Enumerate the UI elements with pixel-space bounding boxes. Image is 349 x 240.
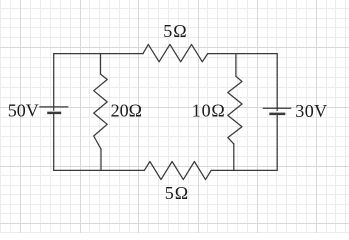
battery V2 long plate (+) [263, 107, 292, 109]
resistor R4 5ohm (bottom) [144, 162, 211, 180]
wire branch: top node to resistor R2 [100, 54, 102, 75]
wire branch: R2 to bottom wire [100, 149, 102, 170]
svg-text:20Ω: 20Ω [111, 100, 142, 120]
wire top-right: R1 to node B [208, 53, 278, 55]
svg-text:10Ω: 10Ω [192, 100, 226, 120]
wire bottom-right: R4 to node C [211, 169, 277, 171]
svg-text:5Ω: 5Ω [165, 183, 189, 203]
svg-text:50V: 50V [8, 100, 39, 120]
wire right side upper: node B down to battery V2 [276, 54, 278, 111]
wire branch: R3 to bottom wire [233, 144, 235, 171]
wire top-left: node A to resistor R1 [54, 53, 143, 55]
resistor R3 10ohm (middle-right vertical) [228, 76, 242, 144]
battery V2 short plate (-) [269, 113, 285, 116]
svg-text:5Ω: 5Ω [163, 21, 187, 41]
wire branch: top node to resistor R3 [235, 54, 237, 77]
svg-text:30V: 30V [295, 101, 327, 121]
resistor R2 20ohm (middle-left vertical) [94, 74, 108, 149]
wire right side lower: battery V2 to node C [276, 114, 278, 170]
battery V1 long plate (+) [39, 106, 68, 108]
wire left side upper: node A down to battery V1 [53, 54, 55, 111]
wire left side lower: battery V1 to node D [53, 113, 55, 170]
resistor R1 5ohm (top) [143, 44, 208, 61]
battery V1 short plate (-) [47, 112, 61, 115]
wire bottom-left: node D to resistor R4 [54, 169, 145, 171]
